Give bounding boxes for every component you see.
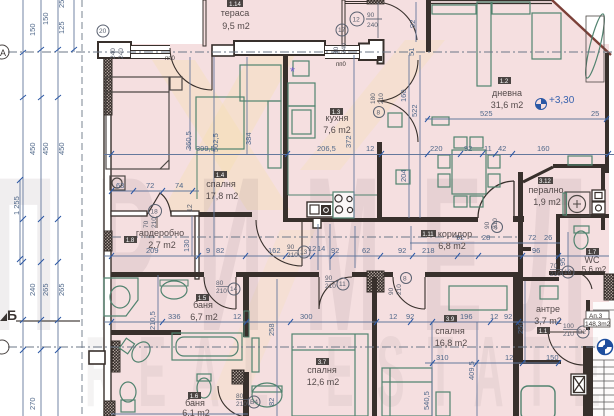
laundry washer cross — [573, 200, 581, 208]
left dim line 4 — [19, 180, 21, 265]
svg-text:80: 80 — [236, 393, 244, 400]
svg-text:240: 240 — [341, 43, 348, 54]
bath61 basin — [252, 383, 282, 407]
svg-text:525: 525 — [480, 109, 493, 118]
dim chain y414 bottom cut — [111, 413, 248, 415]
corridor bottom wall seg2 — [236, 272, 319, 277]
entry door leaf and arc — [548, 332, 584, 365]
laundry washer drum — [569, 196, 586, 213]
label bath67 — [190, 294, 218, 322]
dim chain y154 — [104, 154, 614, 156]
grid bubble C — [0, 340, 9, 354]
left wall hatch block 4 — [104, 401, 115, 416]
bath67 sink — [161, 281, 187, 299]
svg-text:+3,30: +3,30 — [549, 95, 575, 106]
corridor bottom wall seg3 — [352, 272, 370, 277]
svg-text:210,5: 210,5 — [148, 311, 157, 330]
label kitchen — [323, 108, 351, 135]
svg-text:1.8: 1.8 — [126, 238, 135, 244]
svg-text:162: 162 — [268, 246, 281, 255]
svg-text:70: 70 — [550, 263, 558, 270]
svg-text:90: 90 — [484, 221, 491, 229]
svg-text:92: 92 — [464, 144, 472, 153]
svg-text:240: 240 — [28, 283, 37, 296]
laundry appliance box 2 — [592, 202, 605, 214]
bath61 hall wall hatch — [232, 370, 244, 384]
svg-text:160: 160 — [537, 144, 550, 153]
left dim line 3 — [57, 0, 59, 416]
watermark yellow logo band 4 — [210, 230, 315, 400]
door tag terrace — [350, 12, 382, 29]
wc toilet tank — [574, 226, 589, 233]
stove burners — [335, 195, 353, 213]
bedroom126 radiator — [252, 338, 259, 372]
label bedroom126 — [307, 358, 340, 387]
right outer wall pералнo — [601, 168, 605, 230]
svg-text:240: 240 — [110, 48, 117, 59]
dim vertical x214 — [213, 57, 215, 256]
apartment label box — [584, 311, 611, 328]
svg-text:206,5: 206,5 — [317, 144, 336, 153]
svg-text:12: 12 — [389, 312, 397, 321]
living tv stand — [432, 5, 476, 14]
laundry left wall — [518, 172, 523, 240]
wall stub right of terrace door — [212, 45, 234, 56]
closet door tag stem — [156, 216, 158, 228]
dim vertical x247 — [246, 57, 248, 154]
svg-text:16,8 m2: 16,8 m2 — [435, 338, 468, 348]
ticks chain y363 — [430, 360, 561, 366]
bath67 door arc — [204, 277, 236, 309]
bedroom168 wardrobe — [449, 286, 507, 310]
svg-text:265: 265 — [57, 283, 66, 296]
left wall hatch block 2 — [104, 231, 112, 251]
kitchen cabinets upper — [288, 83, 315, 106]
svg-text:31,6 m2: 31,6 m2 — [491, 100, 524, 110]
svg-text:150: 150 — [41, 12, 50, 25]
svg-text:90: 90 — [287, 244, 295, 251]
svg-text:WC: WC — [585, 255, 600, 265]
svg-text:6,7 m2: 6,7 m2 — [190, 312, 218, 322]
svg-text:12: 12 — [366, 144, 374, 153]
terrace left rail — [203, 0, 206, 46]
svg-text:240: 240 — [118, 48, 125, 59]
svg-text:3.9: 3.9 — [446, 317, 455, 323]
svg-text:8: 8 — [403, 276, 407, 283]
closet right wall — [195, 216, 199, 279]
terrace door arc into bedroom — [170, 48, 212, 90]
dim chain y322 — [104, 321, 560, 323]
svg-text:20: 20 — [99, 28, 107, 35]
top-left pier — [98, 42, 131, 58]
entry cabinet — [540, 286, 558, 299]
wall stub right of living door — [513, 216, 524, 222]
svg-text:1,9 m2: 1,9 m2 — [533, 197, 561, 207]
svg-text:42: 42 — [498, 144, 506, 153]
upper terrace door arc — [384, 3, 417, 40]
diagonal facade top right — [552, 0, 611, 55]
dining table — [452, 150, 486, 194]
shower ellipse — [110, 286, 130, 308]
lens column on diagonal — [582, 13, 608, 79]
svg-text:25: 25 — [57, 0, 66, 8]
label corridor — [421, 229, 472, 251]
svg-text:210: 210 — [287, 252, 298, 259]
label bedroom178 — [206, 171, 239, 201]
bath61 right wall — [243, 372, 249, 416]
grid line A dash-dot — [8, 51, 614, 53]
svg-text:1 255: 1 255 — [12, 196, 21, 215]
bathtub — [172, 333, 242, 360]
compass wheel icon — [598, 340, 613, 355]
armchair near kitchen — [388, 113, 402, 127]
kitchen right wall lower — [377, 142, 382, 222]
svg-text:2,7 m2: 2,7 m2 — [148, 240, 176, 250]
floor fill cutout: stairwell bottom right — [593, 302, 614, 416]
watermark yellow logo band 1 — [160, 55, 295, 215]
side table living — [432, 117, 449, 125]
entry inner wall piece — [523, 277, 559, 281]
svg-text:72: 72 — [528, 233, 536, 242]
dining chair 2 — [470, 137, 483, 148]
kitchen-bedroom wall — [283, 56, 288, 222]
bedroom bottom wall — [199, 212, 252, 217]
left dim line 1 — [22, 0, 24, 416]
svg-text:96: 96 — [532, 246, 540, 255]
svg-text:210: 210 — [325, 283, 336, 290]
hall east wall — [518, 240, 523, 364]
svg-text:Б: Б — [7, 307, 17, 323]
svg-text:150: 150 — [28, 23, 37, 36]
dim vertical x190 — [189, 57, 191, 151]
svg-text:384: 384 — [244, 132, 253, 145]
dim chain y256 — [104, 255, 609, 257]
svg-text:74: 74 — [175, 181, 183, 190]
svg-text:1.1: 1.1 — [539, 329, 548, 335]
vertical grid dashed — [81, 0, 83, 416]
laundry washer box — [565, 192, 590, 216]
svg-text:270: 270 — [28, 397, 37, 410]
svg-text:16: 16 — [564, 269, 572, 276]
kitchen fridge inner — [292, 110, 311, 134]
dim vertical x192 closet — [191, 216, 193, 256]
laundry teal band — [563, 193, 567, 215]
facade wall under terrace — [234, 41, 325, 55]
svg-text:522: 522 — [410, 104, 419, 117]
svg-text:92: 92 — [504, 312, 512, 321]
svg-text:9,5 m2: 9,5 m2 — [222, 21, 250, 31]
svg-text:95: 95 — [558, 258, 567, 266]
svg-text:220: 220 — [430, 144, 443, 153]
svg-text:70: 70 — [143, 220, 150, 228]
ticks chain y191 — [109, 188, 195, 194]
svg-text:90: 90 — [325, 275, 333, 282]
svg-text:372: 372 — [344, 135, 353, 148]
svg-text:100: 100 — [563, 323, 574, 330]
door tag bedroom window — [110, 48, 125, 59]
bedroom168 bed — [382, 368, 432, 416]
svg-text:210: 210 — [378, 93, 385, 104]
living table — [532, 13, 561, 59]
dim vertical x158 bath — [157, 275, 159, 330]
dining chair 7 — [488, 155, 500, 168]
bedroom window band — [131, 45, 170, 59]
svg-text:26: 26 — [544, 233, 552, 242]
nightstand top — [170, 77, 182, 90]
bedroom178 wardrobe A edge — [196, 149, 198, 199]
door tag living door — [484, 218, 499, 229]
svg-text:1.2: 1.2 — [500, 79, 509, 85]
rotated dims in plan — [148, 20, 567, 410]
door tag bath67 — [216, 280, 240, 295]
bath divider wall — [111, 330, 181, 335]
svg-text:B4: B4 — [250, 399, 258, 406]
label bedroom168 — [435, 315, 468, 348]
corridor centerline dash-dot — [112, 236, 518, 238]
left outer wall — [104, 44, 111, 416]
door tag wc — [550, 263, 574, 278]
svg-text:51: 51 — [407, 48, 416, 56]
door tag bedroom178 — [287, 244, 310, 259]
svg-text:82: 82 — [216, 246, 224, 255]
bed pillow line — [106, 92, 169, 169]
ticks chain y151 — [109, 151, 611, 157]
dim vertical x277 — [276, 279, 278, 416]
svg-text:196: 196 — [460, 312, 473, 321]
bedroom168 east wall — [513, 277, 519, 416]
stair treads — [593, 310, 614, 416]
entry right wall upper — [586, 300, 590, 330]
laundry bottom wall — [556, 214, 609, 218]
svg-text:90: 90 — [367, 12, 375, 19]
svg-text:гардеробно: гардеробно — [136, 228, 184, 238]
kitchen window band — [325, 45, 359, 59]
svg-text:спалня: спалня — [206, 179, 236, 189]
living sideboard — [568, 156, 592, 165]
kitchen niche notch — [313, 219, 321, 228]
svg-text:1.11: 1.11 — [422, 232, 434, 238]
wc toilet — [574, 231, 588, 249]
closet door arch — [147, 193, 171, 215]
floor fill: main apartment body — [104, 44, 609, 416]
dim vertical x409 — [408, 55, 410, 218]
ticks chain y119 — [425, 116, 609, 122]
svg-text:336: 336 — [168, 312, 181, 321]
svg-text:80: 80 — [216, 280, 224, 287]
svg-text:7,6 m2: 7,6 m2 — [323, 125, 351, 135]
laundry top wall — [553, 164, 605, 168]
bath67 toilet tank — [119, 338, 134, 354]
bath67 right wall — [243, 273, 249, 337]
door tag kitchen window — [333, 43, 348, 54]
label wc — [582, 248, 607, 274]
lens frame — [586, 16, 604, 82]
svg-text:82: 82 — [267, 398, 276, 406]
svg-text:72: 72 — [146, 181, 154, 190]
svg-text:12: 12 — [490, 312, 498, 321]
floor fill: living room top strip — [345, 0, 611, 55]
door tag entry — [563, 323, 589, 338]
living sofa — [477, 2, 491, 86]
dining chair 3 — [454, 196, 467, 207]
kitchen fridge — [288, 106, 315, 138]
kitchen sink white square — [310, 205, 319, 214]
bath61 pedestal base — [121, 400, 135, 412]
armchair near kitchen 2 — [396, 170, 410, 184]
label entry hall — [534, 304, 562, 335]
svg-text:450: 450 — [57, 142, 66, 155]
svg-text:204: 204 — [399, 169, 408, 182]
bed bedroom178 — [106, 77, 169, 169]
bedroom126 bed — [292, 334, 368, 416]
svg-text:210: 210 — [563, 331, 574, 338]
svg-text:240: 240 — [367, 22, 378, 29]
svg-text:180: 180 — [370, 93, 377, 104]
right outer wall upper — [605, 53, 609, 173]
dining chair 8 — [488, 174, 500, 187]
svg-text:12: 12 — [353, 17, 361, 24]
svg-text:90: 90 — [388, 287, 395, 295]
svg-text:3,7 m2: 3,7 m2 — [534, 316, 562, 326]
svg-text:62: 62 — [362, 246, 370, 255]
svg-text:спалня: спалня — [435, 326, 465, 336]
dim vertical x477 — [476, 322, 478, 416]
svg-text:11: 11 — [484, 144, 492, 153]
dim chain y191 — [111, 190, 199, 192]
dim chain y243 — [410, 242, 560, 244]
bedroom168 west wall — [372, 277, 377, 416]
corridor bottom wall seg1 — [111, 272, 204, 277]
svg-text:450: 450 — [28, 142, 37, 155]
svg-text:92: 92 — [331, 246, 339, 255]
nightstand bottom circle — [112, 178, 122, 188]
grid bubble A — [0, 45, 9, 59]
dining chair 5 — [438, 155, 450, 168]
kitchen right wall top stub — [377, 56, 382, 61]
svg-text:пералнo: пералнo — [528, 185, 563, 195]
svg-text:210: 210 — [216, 288, 227, 295]
dining chair 4 — [470, 196, 483, 207]
svg-text:210: 210 — [151, 217, 158, 228]
shaft box with X — [571, 374, 587, 395]
svg-text:9: 9 — [206, 246, 210, 255]
svg-text:5,6 m2: 5,6 m2 — [582, 265, 607, 274]
svg-text:17: 17 — [338, 27, 346, 34]
kitchen sink dark square circle — [324, 208, 329, 213]
bath61 toilet2 — [197, 378, 211, 398]
svg-text:14: 14 — [317, 244, 325, 253]
door tag closet — [143, 217, 158, 228]
svg-text:8: 8 — [377, 110, 381, 117]
left wall jog bump — [89, 351, 105, 364]
svg-text:409,5: 409,5 — [467, 361, 476, 380]
bath61 pedestal sink — [120, 382, 136, 402]
hall bottom wall — [523, 360, 561, 364]
svg-text:6: 6 — [494, 225, 498, 232]
closet top wall left — [111, 211, 147, 216]
ticks chain y256 — [109, 253, 561, 259]
corridor bottom wall seg4 — [425, 272, 518, 277]
svg-text:12: 12 — [505, 353, 513, 362]
dim vertical x432 — [431, 322, 433, 416]
bedroom126 entry arc — [319, 277, 352, 309]
svg-text:6,8 m2: 6,8 m2 — [438, 241, 466, 251]
svg-text:дневна: дневна — [492, 88, 522, 98]
svg-text:25: 25 — [591, 109, 599, 118]
svg-text:218: 218 — [422, 246, 435, 255]
svg-text:148,3m2: 148,3m2 — [585, 321, 611, 328]
watermark yellow logo band 2 — [152, 60, 290, 210]
grid line V dash-dot — [8, 346, 614, 348]
left dim line 3b — [73, 0, 75, 52]
top wall hatch pier — [367, 0, 384, 4]
svg-text:17,8 m2: 17,8 m2 — [206, 191, 239, 201]
bedroom door leaf and arc — [256, 220, 302, 266]
dining chair 1 — [454, 137, 467, 148]
svg-text:125: 125 — [57, 21, 66, 34]
corridor bottom wall hatch column — [367, 271, 384, 292]
bath61 basin box — [252, 386, 282, 392]
svg-text:тераса: тераса — [221, 8, 250, 18]
svg-text:210: 210 — [236, 401, 247, 408]
svg-text:450: 450 — [41, 142, 50, 155]
wc door arc — [570, 271, 592, 289]
svg-text:пп0: пп0 — [336, 62, 346, 68]
nightstand bottom — [110, 176, 125, 190]
terrace right rail — [342, 0, 345, 46]
bath67 toilet — [128, 338, 154, 365]
svg-text:12: 12 — [233, 312, 241, 321]
wardrobe bedroom178 horizontal — [240, 65, 281, 101]
bathtub inner — [176, 337, 238, 356]
svg-text:пп0: пп0 — [165, 56, 175, 62]
left wall hatch block 3 — [112, 341, 120, 372]
svg-text:210: 210 — [550, 271, 561, 278]
svg-text:150: 150 — [546, 353, 559, 362]
label laundry — [528, 177, 563, 207]
wc bottom wall — [549, 271, 605, 275]
svg-text:28: 28 — [482, 233, 490, 242]
dim vertical x568 wc — [567, 232, 569, 271]
ticks chain y322 — [109, 319, 561, 325]
svg-text:540,5: 540,5 — [422, 391, 431, 410]
entry right wall lower thick — [583, 346, 593, 416]
storage rounded fixture — [521, 386, 555, 416]
living room door leaf and arc — [478, 181, 514, 218]
living room top wall — [428, 1, 552, 4]
floor fill: terrace — [203, 0, 345, 50]
bedroom126 east wall — [243, 273, 249, 337]
bedroom178 wardrobe A — [196, 97, 244, 149]
svg-text:210: 210 — [396, 284, 403, 295]
door tag kitchen-living — [370, 93, 385, 104]
corridor short verticals — [318, 224, 411, 270]
svg-text:80: 80 — [333, 46, 340, 54]
label living — [491, 77, 524, 110]
dim vertical x416 top — [415, 2, 417, 42]
ticks left lines — [17, 47, 77, 353]
living room top-left pier — [426, 0, 431, 52]
svg-text:баня: баня — [185, 398, 205, 408]
svg-text:11: 11 — [339, 281, 346, 288]
bedroom126 west closet line — [244, 311, 249, 337]
kitchen sink unit — [307, 202, 333, 217]
svg-text:B2: B2 — [578, 329, 586, 336]
kitchen sink dark square — [321, 205, 331, 215]
svg-text:*: * — [290, 64, 295, 79]
dim vertical x420 — [419, 55, 421, 218]
shower bath67 — [104, 278, 138, 316]
